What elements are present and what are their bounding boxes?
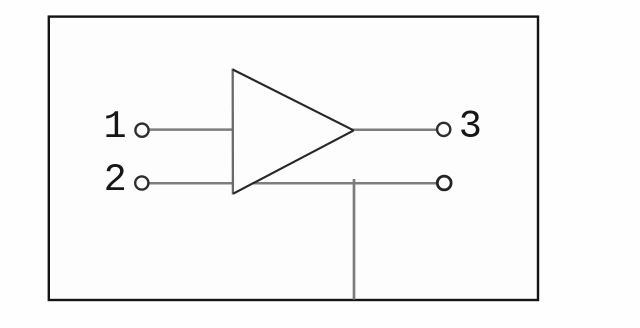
- pin 1 terminal circle: [135, 124, 148, 137]
- unlabeled terminal circle on pin2 net: [437, 176, 451, 190]
- wire vertical stub to bottom border: [353, 179, 356, 300]
- wire pin1 to amplifier input: [149, 128, 234, 131]
- wire amplifier output to pin3: [352, 129, 437, 132]
- pin 3 terminal circle: [437, 123, 450, 136]
- svg-text:2: 2: [104, 158, 127, 202]
- border frame of schematic box: [49, 17, 538, 300]
- wire pin2 horizontal net: [149, 182, 437, 185]
- svg-text:1: 1: [103, 105, 126, 149]
- svg-text:3: 3: [459, 105, 482, 149]
- pin 2 terminal circle: [135, 176, 148, 189]
- op-amp U1 triangle body: [233, 69, 354, 195]
